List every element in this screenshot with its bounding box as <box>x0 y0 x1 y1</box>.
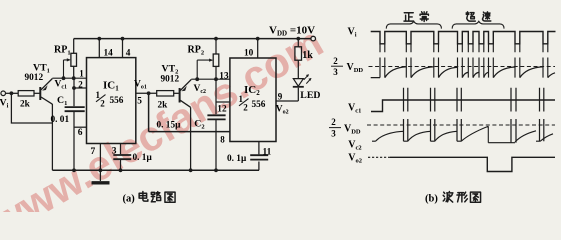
svg-text:3: 3 <box>112 147 117 157</box>
svg-text:8: 8 <box>220 135 225 145</box>
svg-text:9: 9 <box>278 91 283 101</box>
svg-text:14: 14 <box>104 48 114 58</box>
svg-text:6: 6 <box>78 128 83 138</box>
svg-text:0. 01: 0. 01 <box>51 115 70 125</box>
svg-text:13: 13 <box>219 71 229 81</box>
svg-text:12: 12 <box>217 104 227 114</box>
svg-text:LED: LED <box>300 90 320 101</box>
svg-text:556: 556 <box>110 96 124 106</box>
svg-text:2: 2 <box>78 79 83 89</box>
svg-text:5: 5 <box>137 97 142 107</box>
svg-text:2: 2 <box>331 117 336 127</box>
svg-text:(a): (a) <box>123 193 136 204</box>
svg-text:3: 3 <box>333 67 338 77</box>
svg-text:9012: 9012 <box>161 74 180 84</box>
svg-text:2k: 2k <box>20 99 31 109</box>
svg-text:3: 3 <box>331 128 336 138</box>
svg-text:VDD =10V: VDD =10V <box>269 25 315 38</box>
svg-text:0. 1μ: 0. 1μ <box>133 153 153 163</box>
svg-text:0. 15μ: 0. 15μ <box>157 121 182 131</box>
svg-text:11: 11 <box>263 147 272 157</box>
svg-text:1k: 1k <box>302 50 313 61</box>
svg-text:2: 2 <box>243 103 248 113</box>
svg-text:0. 1μ: 0. 1μ <box>227 154 247 164</box>
svg-text:9012: 9012 <box>25 73 44 83</box>
svg-text:7: 7 <box>91 147 96 157</box>
svg-text:4: 4 <box>126 48 131 58</box>
svg-text:10: 10 <box>244 49 254 59</box>
svg-text:2: 2 <box>100 99 105 109</box>
svg-text:2k: 2k <box>158 100 169 110</box>
svg-text:1: 1 <box>79 69 84 79</box>
svg-text:556: 556 <box>252 100 266 110</box>
svg-text:(b): (b) <box>425 193 438 204</box>
svg-text:2: 2 <box>333 56 338 66</box>
